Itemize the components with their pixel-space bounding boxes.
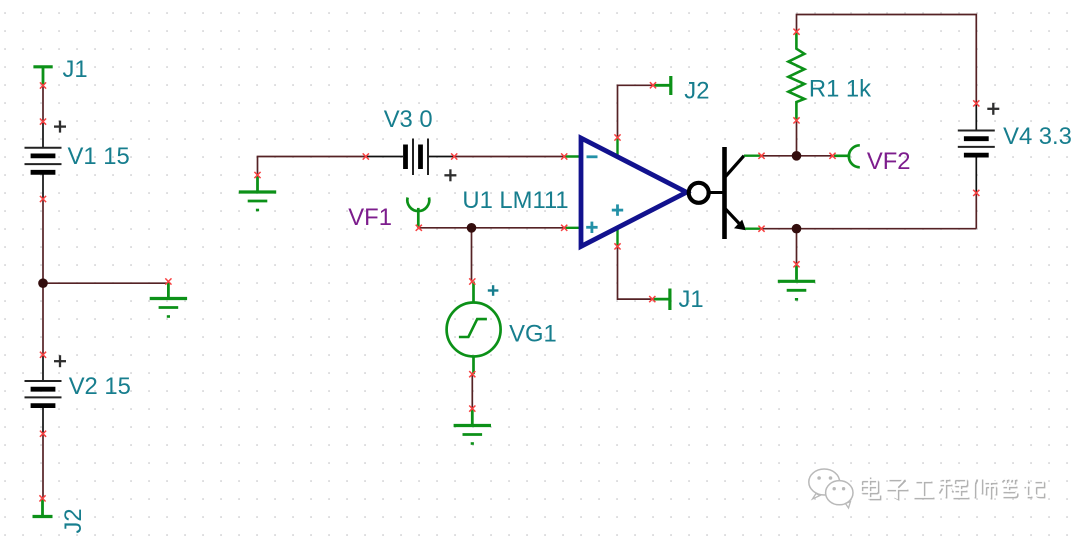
svg-text:V3 0: V3 0 <box>384 106 433 133</box>
svg-text:V2 15: V2 15 <box>69 373 131 400</box>
svg-text:J2: J2 <box>684 78 709 105</box>
svg-text:J1: J1 <box>63 56 88 83</box>
svg-text:VF2: VF2 <box>867 148 911 175</box>
svg-text:J2: J2 <box>60 508 87 533</box>
svg-text:J1: J1 <box>679 286 704 313</box>
svg-text:V1 15: V1 15 <box>68 143 130 170</box>
svg-text:U1 LM111: U1 LM111 <box>462 187 568 214</box>
svg-text:V4 3.3: V4 3.3 <box>1003 123 1072 150</box>
svg-text:VG1: VG1 <box>509 321 557 348</box>
svg-text:VF1: VF1 <box>348 204 392 231</box>
svg-text:R1 1k: R1 1k <box>809 76 871 103</box>
